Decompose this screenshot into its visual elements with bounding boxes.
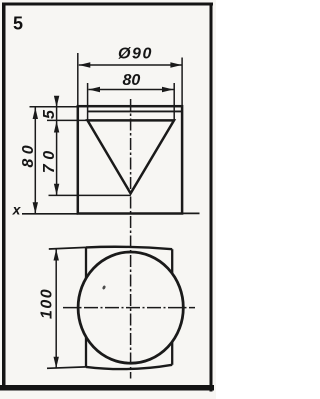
svg-text:100: 100 — [39, 288, 56, 319]
svg-text:Ø90: Ø90 — [118, 46, 153, 63]
svg-text:80: 80 — [20, 141, 37, 168]
svg-text:x: x — [12, 202, 22, 218]
svg-text:80: 80 — [123, 72, 141, 89]
svg-text:5: 5 — [41, 109, 58, 119]
svg-text:5: 5 — [13, 14, 23, 34]
svg-text:70: 70 — [41, 146, 58, 173]
